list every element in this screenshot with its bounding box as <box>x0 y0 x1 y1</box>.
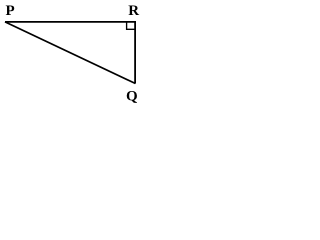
wire: side PR (horizontal top) <box>5 21 136 23</box>
triangle PQR diagram <box>0 0 145 111</box>
wire: side PQ (hypotenuse) <box>5 22 135 84</box>
svg-text:R: R <box>128 3 139 19</box>
svg-text:P: P <box>6 3 15 19</box>
svg-text:Q: Q <box>126 89 138 105</box>
wire: side RQ (vertical right) <box>134 21 136 83</box>
right-angle marker at R <box>127 22 135 29</box>
